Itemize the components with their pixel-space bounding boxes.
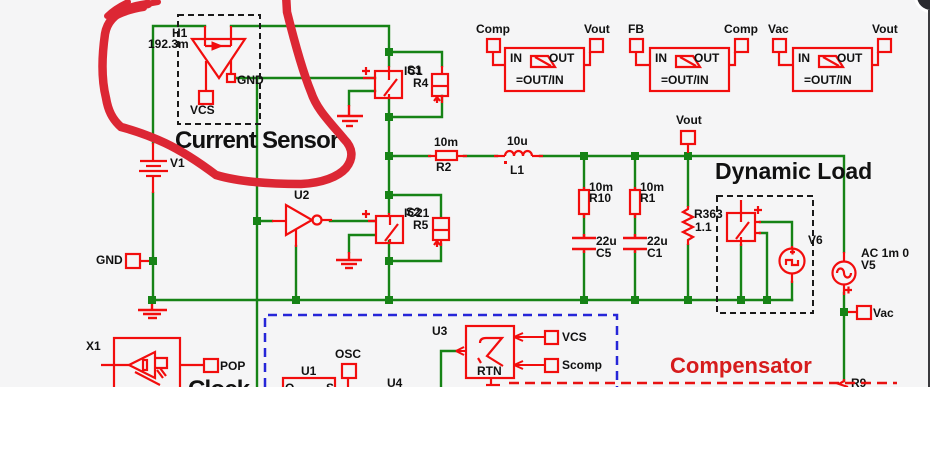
- svg-text:OUT: OUT: [549, 51, 575, 65]
- switch S1: [362, 66, 402, 98]
- svg-text:Vout: Vout: [584, 22, 610, 36]
- svg-text:Dynamic Load: Dynamic Load: [715, 158, 872, 184]
- current sensor H1: [192, 26, 245, 104]
- wire long vertical from GND node down: [256, 78, 258, 387]
- junction bus U2: [292, 296, 300, 304]
- svg-text:R5: R5: [413, 218, 429, 232]
- svg-text:Vout: Vout: [676, 113, 702, 127]
- capacitor C1: [623, 234, 647, 253]
- wire R2 row: [389, 155, 430, 157]
- wire dynload to V6: [760, 222, 792, 246]
- svg-text:L1: L1: [510, 163, 524, 177]
- source V6: [780, 246, 805, 283]
- svg-text:Vac: Vac: [768, 22, 789, 36]
- junction S2 bottom: [385, 257, 393, 265]
- red marker annotation main stroke: [103, 0, 352, 184]
- wire top H1 to main bus: [231, 26, 389, 66]
- svg-text:10u: 10u: [507, 134, 528, 148]
- svg-text:IN: IN: [655, 51, 667, 65]
- wire C1 mid: [634, 216, 636, 236]
- svg-text:R10: R10: [589, 191, 611, 205]
- svg-text:1.1: 1.1: [695, 220, 712, 234]
- blue dashed compensator box: [265, 315, 617, 387]
- svg-text:IN: IN: [798, 51, 810, 65]
- voltage source V1 (battery): [139, 143, 168, 193]
- junction R2 branch: [385, 152, 393, 160]
- wire R4 bottom to junction: [389, 96, 442, 117]
- block U3: [456, 326, 558, 385]
- junction rail R10: [580, 152, 588, 160]
- svg-text:R4: R4: [413, 76, 429, 90]
- svg-text:RTN: RTN: [477, 364, 502, 378]
- wire S1 gate ground: [349, 91, 375, 105]
- svg-text:10m: 10m: [434, 135, 458, 149]
- wire U2 bottom to bus: [295, 246, 297, 300]
- measurement block 1 Comp/Vout: [487, 39, 603, 91]
- wire S1 branch to R4 top: [389, 52, 442, 66]
- svg-text:Vac: Vac: [873, 306, 894, 320]
- wire R5 bottom to junction: [389, 244, 441, 261]
- wire S2 bottom to bus: [388, 241, 390, 300]
- svg-text:U2: U2: [294, 188, 310, 202]
- svg-text:R1: R1: [640, 191, 656, 205]
- resistor R1: [630, 187, 640, 218]
- svg-text:IN: IN: [510, 51, 522, 65]
- resistor R10: [579, 187, 589, 218]
- wire V1 bottom to bus: [152, 193, 154, 300]
- junction Vac node: [840, 308, 848, 316]
- UI vertical line right: [928, 10, 930, 387]
- inductor L1: [494, 151, 543, 156]
- svg-text:R363: R363: [694, 207, 723, 221]
- red dashed line compensator box: [509, 382, 897, 385]
- dashed box current sensor: [178, 15, 260, 124]
- wire C5 mid: [583, 216, 585, 236]
- wire C5 bottom: [583, 252, 585, 300]
- dashed box dynamic load: [717, 196, 813, 313]
- wire S1 bottom to junction: [388, 98, 390, 213]
- resistor R9 partial: [839, 379, 848, 387]
- wire dynload right pin: [760, 233, 767, 300]
- inverter U2: [272, 205, 332, 247]
- UI circle top right: [914, 0, 930, 13]
- junction U2 input: [253, 217, 261, 225]
- measurement block 2 FB/Comp: [630, 39, 748, 91]
- wire C1 branch: [634, 156, 636, 189]
- svg-text:U1: U1: [301, 364, 317, 378]
- resistor R3 zigzag: [683, 206, 693, 245]
- Vout terminal top: [681, 131, 695, 153]
- wire R3 branch top: [687, 156, 689, 206]
- switch S2: [362, 210, 403, 243]
- svg-text:Current Sensor: Current Sensor: [175, 127, 339, 154]
- svg-text:Comp: Comp: [476, 22, 510, 36]
- sense resistor R4: [432, 66, 448, 103]
- svg-text:=OUT/IN: =OUT/IN: [804, 73, 852, 87]
- svg-text:C1: C1: [647, 246, 663, 260]
- svg-text:192.3m: 192.3m: [148, 37, 189, 51]
- junction nodes (green squares): [148, 48, 848, 316]
- junction rail R1: [631, 152, 639, 160]
- junction bus load switch: [737, 296, 745, 304]
- red marker hook: [107, 2, 158, 20]
- wire S2 gate ground: [349, 235, 375, 252]
- GND terminal: [126, 254, 149, 268]
- wire L1 to right rail: [540, 156, 844, 252]
- junction bus C1: [631, 296, 639, 304]
- wire C5 branch: [583, 156, 585, 189]
- Vac terminal: [848, 306, 871, 319]
- svg-text:OUT: OUT: [837, 51, 863, 65]
- sense resistor R5: [433, 217, 449, 247]
- block U1 partial: [283, 378, 335, 392]
- wire V5 bottom to Vac junction: [843, 293, 845, 381]
- junction S2 top: [385, 191, 393, 199]
- ground under bus: [138, 304, 167, 318]
- svg-text:VCS: VCS: [190, 103, 215, 117]
- svg-text:C5: C5: [596, 246, 612, 260]
- junction bus load right: [763, 296, 771, 304]
- svg-text:V5: V5: [861, 258, 876, 272]
- svg-text:GND: GND: [96, 253, 123, 267]
- switch S3 dynamic load: [727, 200, 762, 246]
- resistor R2: [428, 151, 467, 160]
- junction bus V1: [148, 296, 156, 304]
- wire U2 out to S2: [330, 220, 375, 222]
- white area below schematic cut: [0, 387, 930, 460]
- svg-text:=OUT/IN: =OUT/IN: [516, 73, 564, 87]
- wire U3 left pin: [441, 351, 456, 387]
- wire ground bus horizontal: [152, 299, 792, 301]
- wire S2 branch to R5 top: [389, 195, 441, 217]
- svg-text:S2: S2: [406, 205, 421, 219]
- OSC terminal: [342, 364, 356, 387]
- ground under S2 gate: [336, 252, 362, 268]
- svg-text:FB: FB: [628, 22, 644, 36]
- svg-text:U3: U3: [432, 324, 448, 338]
- junction S1 top: [385, 48, 393, 56]
- wire top-left from V1 to H1: [153, 26, 205, 143]
- svg-text:VCS: VCS: [562, 330, 587, 344]
- svg-text:POP: POP: [220, 359, 245, 373]
- block X1 POP trigger: [101, 338, 218, 390]
- ground under S1 gate: [337, 105, 363, 126]
- wire H1 GND to S1: [236, 77, 375, 79]
- wire U2 input: [257, 220, 272, 222]
- svg-text:V1: V1: [170, 156, 185, 170]
- junction bus C5: [580, 296, 588, 304]
- wire R3 bottom: [687, 245, 689, 300]
- wire R2 to L1: [464, 155, 497, 157]
- capacitor C5: [572, 234, 596, 253]
- svg-text:Compensator: Compensator: [670, 353, 812, 378]
- svg-text:R2: R2: [436, 160, 452, 174]
- junction bus S2: [385, 296, 393, 304]
- source V5 AC: [833, 252, 856, 295]
- svg-text:Vout: Vout: [872, 22, 898, 36]
- svg-text:S1: S1: [407, 63, 422, 77]
- svg-text:Scomp: Scomp: [562, 358, 602, 372]
- svg-text:=OUT/IN: =OUT/IN: [661, 73, 709, 87]
- junction rail Vout: [684, 152, 692, 160]
- wire dynload switch bottom: [740, 245, 742, 300]
- wire V6 bottom: [791, 282, 793, 300]
- junction GND terminal: [149, 257, 157, 265]
- svg-text:OUT: OUT: [694, 51, 720, 65]
- svg-text:X1: X1: [86, 339, 101, 353]
- junction S1 bottom: [385, 113, 393, 121]
- H1 arrow on bar: [212, 42, 222, 50]
- wire C1 bottom: [634, 252, 636, 300]
- svg-text:V6: V6: [808, 233, 823, 247]
- svg-text:Comp: Comp: [724, 22, 758, 36]
- svg-text:OSC: OSC: [335, 347, 361, 361]
- measurement block 3 Vac/Vout: [773, 39, 891, 91]
- junction bus R3: [684, 296, 692, 304]
